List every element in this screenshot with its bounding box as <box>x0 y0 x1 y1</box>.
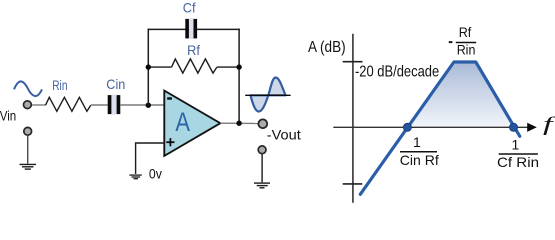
terminal Vin <box>24 101 32 109</box>
op-amp minus sign <box>167 97 172 99</box>
frequency response gradient fill <box>407 62 513 127</box>
svg-text:1: 1 <box>413 134 421 150</box>
resistor Rin <box>46 97 91 111</box>
wire output ground terminal to ground <box>261 154 263 182</box>
output sine symbol <box>245 78 290 112</box>
wire feedback left vertical <box>147 29 149 105</box>
svg-text:Cin: Cin <box>106 76 125 92</box>
svg-text:Rin: Rin <box>457 42 476 58</box>
wire input ground terminal to ground <box>27 136 29 164</box>
wire plus input to ground <box>136 143 165 174</box>
terminal -Vout <box>258 119 267 128</box>
node input junction <box>146 103 151 108</box>
svg-text:Cf Rin: Cf Rin <box>497 154 539 170</box>
frequency response curve <box>360 62 520 194</box>
svg-text:Rf: Rf <box>459 24 472 40</box>
label 1/(Cf Rin) upper corner frequency <box>497 136 539 170</box>
node output junction <box>236 121 241 126</box>
svg-text:f: f <box>543 114 555 136</box>
wire feedback right vertical <box>238 29 240 124</box>
label -Rf/Rin gain level <box>449 24 476 58</box>
capacitor Cf <box>185 18 197 39</box>
svg-text:Cf: Cf <box>183 0 196 16</box>
ground input <box>20 164 37 169</box>
terminal input ground <box>24 127 32 135</box>
y-axis tick lower <box>343 183 363 185</box>
fraction bar <box>400 151 437 153</box>
x-axis arrowhead <box>527 123 537 132</box>
node Rf left junction <box>146 64 151 69</box>
wire Rin to Cin <box>91 104 108 106</box>
ground output <box>254 183 270 188</box>
op-amp A <box>164 91 220 156</box>
wire input terminal to Rin <box>30 104 46 106</box>
svg-text:Rin: Rin <box>52 77 67 93</box>
y-axis tick upper <box>343 61 363 63</box>
wire Cin to op-amp minus input <box>120 104 164 106</box>
y-axis <box>352 34 354 203</box>
capacitor Cin <box>108 95 121 115</box>
wire feedback top <box>148 28 240 30</box>
svg-text:0v: 0v <box>149 165 162 181</box>
fraction bar <box>499 153 538 155</box>
node upper cutoff frequency <box>510 123 518 131</box>
node lower cutoff frequency <box>403 123 411 131</box>
svg-text:-20 dB/decade: -20 dB/decade <box>355 63 439 80</box>
resistor Rf <box>172 59 217 73</box>
svg-text:-Vout: -Vout <box>267 127 301 143</box>
svg-text:Cin Rf: Cin Rf <box>400 152 439 168</box>
wire Rf left <box>148 66 171 68</box>
fraction bar Rf/Rin <box>456 42 476 44</box>
svg-text:1: 1 <box>512 136 520 152</box>
input source sine symbol <box>14 81 42 96</box>
x-axis <box>333 126 528 128</box>
minus sign of -Rf/Rin <box>449 41 453 43</box>
svg-text:A (dB): A (dB) <box>308 39 346 56</box>
wire Rf right <box>217 66 239 68</box>
svg-text:Rf: Rf <box>187 42 200 58</box>
op-amp plus sign <box>166 138 174 146</box>
svg-text:A: A <box>175 107 190 137</box>
wire op-amp output <box>220 122 258 124</box>
node Rf right junction <box>236 64 241 69</box>
svg-text:Vin: Vin <box>0 108 16 124</box>
ground 0v <box>129 175 141 179</box>
label 1/(Cin Rf) lower corner frequency <box>400 134 439 168</box>
terminal output ground <box>258 146 266 154</box>
